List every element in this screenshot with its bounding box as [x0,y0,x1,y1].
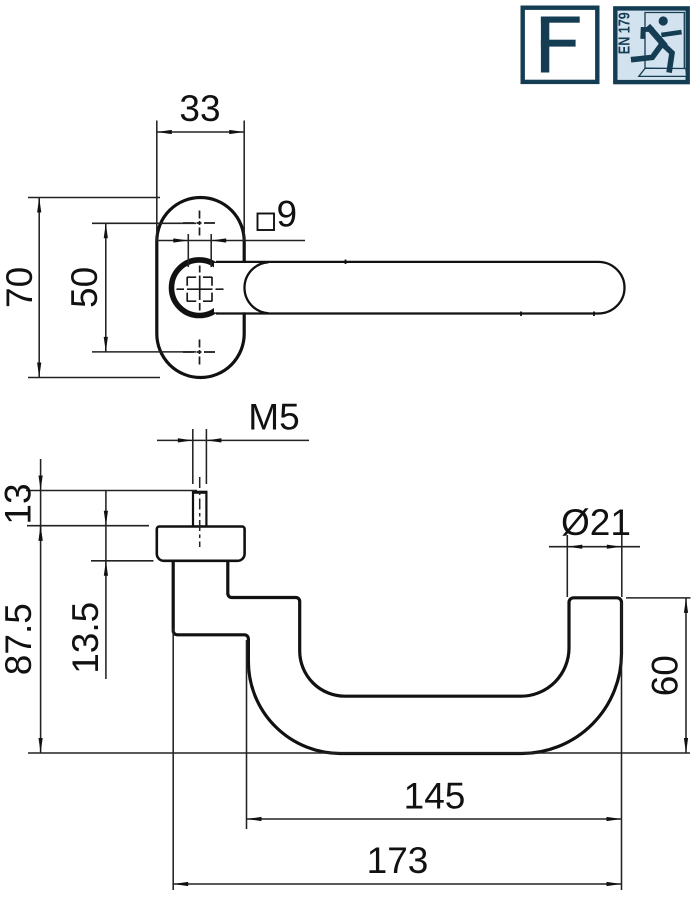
dim 145/173 extension line right [621,602,623,890]
dim 13 extension lines [26,491,197,526]
bottom reference line [28,752,690,754]
dim 13 line [40,459,42,540]
svg-text:70: 70 [0,267,40,308]
svg-text:50: 50 [64,267,105,308]
bearing block [157,527,245,561]
stud centerline [199,477,201,547]
door frame [645,13,684,69]
spindle centerlines [177,266,224,311]
svg-text:60: 60 [645,655,686,696]
floor wedge [639,68,687,76]
rosette outline (stadium) [157,198,244,378]
dim 60 line [685,598,687,753]
dim 145 line [247,818,622,820]
running man left arm [643,29,652,36]
handle bar fill (covers ring & rosette edge) [214,263,623,312]
bar seam tick 3 [593,312,595,317]
bar seam tick 2 [520,312,522,317]
icon F box [523,8,598,82]
svg-text:Ø21: Ø21 [561,502,631,543]
handle bar left cap arc [244,262,268,313]
bar seam tick 1 [345,260,347,265]
dim 50 extension lines [92,223,196,352]
svg-text:13: 13 [0,483,39,524]
dim 33 extension lines [157,121,244,241]
svg-text:87.5: 87.5 [0,603,39,675]
dim 145 extension line left [246,640,248,829]
dim 33 line [157,131,244,133]
dim 13.5 line [105,491,107,680]
spindle square hole [187,277,212,301]
handle profile outline [173,561,621,754]
M5 stud [193,492,206,527]
dim 173 line [173,883,621,885]
svg-text:M5: M5 [248,397,299,438]
screw cross top [183,211,215,236]
icon EN179 box [615,8,687,82]
square-9 label [258,214,275,231]
dim M5 line [157,439,309,441]
svg-text:13.5: 13.5 [65,602,106,674]
running man back leg [634,45,662,60]
dim dia21 line [549,546,640,548]
dim dia21 extension lines [567,535,622,597]
neck ring (thick circle) [172,260,228,316]
svg-text:9: 9 [277,194,298,235]
dim 173 extension line left [172,628,174,890]
dim 9 extension lines [188,234,211,267]
dim M5 extension lines [193,429,207,484]
dim 13.5 extension line [91,560,154,562]
screw cross bottom [183,340,215,365]
running man head [659,16,668,25]
svg-text:145: 145 [404,776,466,817]
dim 70 extension lines [28,198,160,378]
handle bar outline [216,262,625,314]
running man right arm [664,32,680,34]
dim 50 line [105,223,107,352]
dim 9 line [157,240,306,242]
running man torso [650,28,663,43]
svg-text:33: 33 [179,88,220,129]
svg-text:173: 173 [367,840,429,881]
running man front leg [662,44,672,70]
dim 70 line [38,198,40,378]
svg-text:EN 179: EN 179 [617,12,634,54]
dim 60 extension line [626,597,691,599]
dim 87.5 line [40,526,42,753]
